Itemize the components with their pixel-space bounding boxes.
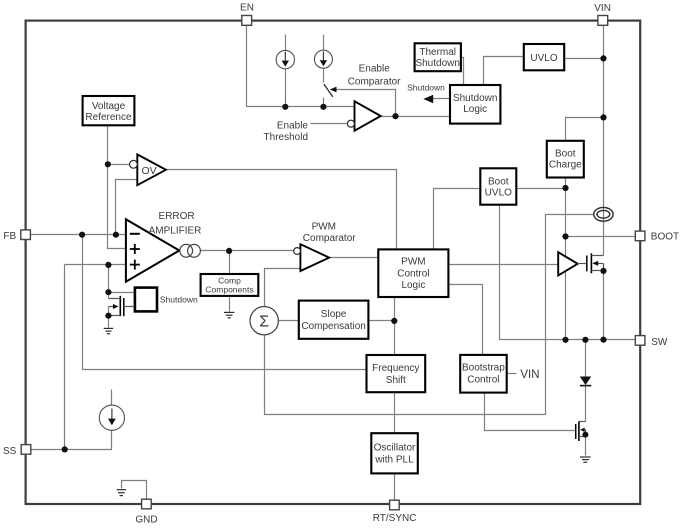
svg-text:OV: OV [142,165,157,177]
node SS-plus input [105,262,111,268]
svg-text:UVLO: UVLO [530,53,557,64]
svg-text:AMPLIFIER: AMPLIFIER [149,225,202,236]
svg-text:Slope: Slope [321,309,347,320]
OV inverting bubble [130,160,138,168]
box voltage reference [83,96,135,125]
pin SS [21,445,31,455]
wire shutdown FET drain to + input [108,265,110,293]
svg-text:BOOT: BOOT [651,232,679,243]
svg-text:FB: FB [3,231,16,242]
current source SS charge [99,405,124,430]
current source I2 [314,50,332,68]
wire shutdown FET node to shutdown box [109,292,135,294]
svg-text:Charge: Charge [549,160,582,171]
wire stub above SS current source [111,390,113,406]
ground under shutdown FET [104,328,113,333]
node BOOT [562,233,568,239]
wire EN pin to enable comparator [247,26,355,107]
node boot UVLO rail [562,185,568,191]
wire boot UVLO sense down to SW line [500,205,636,340]
svg-text:Shift: Shift [386,375,406,386]
svg-text:Boot: Boot [488,177,509,188]
wire current source I1 to EN rail [285,69,287,107]
node EN rail dot 1 [282,104,288,110]
svg-text:Enable: Enable [277,120,309,131]
wire summing node to slope compensation [279,320,299,322]
node FB-OV [113,232,119,238]
pin RT/SYNC [390,500,400,510]
wire boot UVLO to boot charge rail [517,188,566,190]
svg-text:GND: GND [135,515,157,526]
node vref-OV [105,161,111,167]
wire enable comparator output to shutdown logic [381,116,451,118]
pin SW [635,336,645,346]
ground at GND pin [117,490,126,496]
node SS line [62,446,68,452]
box comp components [201,274,259,296]
svg-text:Control: Control [397,268,429,279]
wire PWM logic to gate driver [449,264,559,266]
svg-text:SS: SS [3,446,17,457]
svg-text:Σ: Σ [259,313,269,330]
svg-text:Shutdown: Shutdown [453,93,497,104]
svg-text:Shutdown: Shutdown [160,295,198,305]
pin EN [242,16,252,26]
wire diode to low side FET [585,386,587,422]
box slope compensation [299,301,369,339]
op-amp OV comparator [137,154,166,185]
wire current sense to summing node [265,215,594,415]
svg-text:SW: SW [651,337,668,348]
box shutdown (empty square) [135,288,157,312]
wire FB pin to error amplifier [31,234,126,236]
wire voltage reference down to error amplifier [108,126,126,249]
svg-text:VIN: VIN [520,369,539,381]
svg-text:PWM: PWM [312,222,336,233]
wire shutdown logic arrow out [432,98,451,100]
wire SW node to diode [585,340,587,377]
current sense element [594,207,613,221]
wire PWM logic to bootstrap control [449,285,483,355]
svg-text:Boot: Boot [555,149,576,160]
wire stub above current source I1 [285,35,287,51]
node shutdown FET drain [105,289,111,295]
wire PWM comparator output [330,257,379,259]
wire boot charge to BOOT node [565,178,567,237]
box thermal shutdown [415,43,461,71]
summing node sigma [250,307,278,335]
svg-text:Logic: Logic [463,104,487,115]
wire FB to OV comparator input [116,180,138,235]
node error amp output [226,248,232,254]
svg-text:ERROR: ERROR [159,211,195,222]
svg-text:Shutdown: Shutdown [415,58,459,69]
wire driver supply BOOT to SW [565,237,567,340]
transistor shutdown FET [119,296,121,316]
node SW-diode [582,337,588,343]
current source I1 [276,50,294,68]
svg-text:Threshold: Threshold [264,132,308,143]
svg-text:Compensation: Compensation [301,321,365,332]
pin GND [142,499,152,509]
svg-text:VIN: VIN [594,3,611,14]
box bootstrap control [460,355,507,393]
wire switch control from comparator output [336,90,396,117]
wire current source I2 to switch [323,69,325,83]
wire bootstrap control to low side gate [485,393,576,431]
wire summing node to PWM comparator [265,269,301,307]
wire FB to frequency shift [83,235,367,370]
box shutdown logic [450,85,500,124]
svg-text:Comparator: Comparator [303,233,356,244]
wire VIN rail to boot charge [566,118,604,141]
node SW-driver [562,337,568,343]
transistor high side FET [586,256,588,272]
pin FB [21,230,31,240]
diode catch [580,377,592,386]
wire frequency shift to oscillator [394,393,396,434]
wire low side FET source to ground [585,437,587,456]
node FB-freqshift [79,232,85,238]
box PWM control logic [378,249,448,297]
wire UVLO to shutdown logic [484,57,524,85]
wire SS pin to charging current source [31,431,112,450]
wire switch to EN rail [323,98,325,107]
wire BOOT node to BOOT pin [566,236,636,238]
transistor low side FET [575,424,577,439]
gm output double circle [180,244,193,257]
svg-text:Logic: Logic [401,280,425,291]
svg-text:Comparator: Comparator [348,76,401,87]
arrowhead shutdown [423,95,433,104]
wire stub above current source I2 [323,35,325,51]
node EN rail dot 2 [320,104,326,110]
svg-text:PWM: PWM [401,257,425,268]
wire SS to error amplifier + input [65,264,126,266]
wire UVLO to VIN rail [565,58,604,60]
svg-text:EN: EN [240,3,254,14]
wire thermal shutdown to shutdown logic [461,58,464,85]
gate driver triangle [558,252,578,275]
box frequency shift [367,355,426,392]
wire bootstrap control right to VIN label [507,373,517,375]
svg-text:Oscillator: Oscillator [374,443,416,454]
node VIN-UVLO [600,55,606,61]
node shutdown FET source [105,313,111,319]
svg-text:Voltage: Voltage [92,101,126,112]
box UVLO [524,44,564,70]
svg-text:Shutdown: Shutdown [407,82,445,92]
wire SS vertical [64,265,66,450]
ground under comp components [224,312,234,317]
wire slope compensation to PWM logic / frequency shift [369,320,395,322]
box oscillator with PLL [371,433,418,473]
wire boot UVLO to PWM control logic [434,189,481,250]
wire error amplifier output [201,250,294,252]
node SW-FET source [600,337,606,343]
wire comp components top [229,251,231,275]
switch blade [324,84,333,97]
wire GND pin to ground symbol [122,481,147,499]
svg-text:Enable: Enable [359,63,391,74]
svg-text:Components: Components [205,285,253,295]
pin VIN [598,16,608,26]
node VIN-bootcharge [600,114,606,120]
wire PWM logic bottom to frequency shift [394,297,396,355]
node slope comp output [391,318,397,324]
op-amp error amplifier U1 [126,219,179,281]
svg-text:UVLO: UVLO [485,188,512,199]
box boot UVLO [480,168,516,204]
wire enable threshold to comparator inverting input [311,123,348,125]
wire comp components to ground [229,296,231,312]
wire oscillator to RT/SYNC pin [394,474,396,501]
op-amp enable comparator [355,101,381,130]
svg-text:Frequency: Frequency [372,363,419,374]
svg-text:Thermal: Thermal [419,47,456,58]
svg-text:with PLL: with PLL [374,455,414,466]
arrowhead on switch control [330,87,337,93]
ground under low side FET [580,457,591,462]
svg-text:RT/SYNC: RT/SYNC [373,513,417,524]
pin BOOT [635,231,645,241]
svg-text:Bootstrap: Bootstrap [462,363,505,374]
op-amp PWM comparator [300,244,329,271]
svg-text:Reference: Reference [85,112,132,123]
node enable comparator output [392,113,398,119]
box boot charge [547,141,584,178]
wire VIN rail [603,26,605,256]
wire OV comparator output to PWM control logic [166,170,397,250]
svg-text:Control: Control [467,375,499,386]
wire voltage reference to OV inverting input [108,164,130,166]
